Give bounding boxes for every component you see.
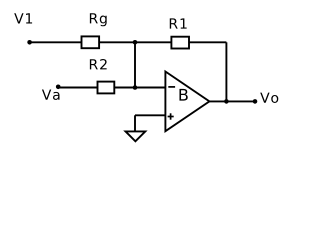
wire node B to op-amp inverting input — [135, 87, 165, 89]
label R2 — [90, 59, 107, 69]
resistor Rg — [82, 36, 100, 48]
wire feedback vertical — [225, 42, 227, 101]
label Rg — [90, 13, 107, 26]
resistor R2 — [98, 82, 115, 94]
label Vo — [260, 93, 278, 103]
wire op-amp noninverting input — [135, 114, 165, 116]
op-amp U1 triangle — [165, 72, 209, 132]
wire Rg to node A — [99, 41, 136, 43]
node output junction — [224, 99, 229, 104]
wire op-amp output to Vo — [209, 100, 255, 102]
node V1 terminal — [27, 40, 32, 45]
op-amp minus pin label — [168, 86, 175, 88]
wire R1 to top-right corner — [189, 41, 227, 43]
label V1 — [14, 13, 32, 23]
op-amp plus pin label — [168, 116, 174, 118]
wire Va to R2 — [58, 87, 97, 89]
label Va — [42, 89, 60, 99]
wire R2 to node B — [114, 87, 135, 89]
wire node A to node B vertical — [134, 42, 136, 87]
node Va terminal — [56, 85, 61, 90]
resistor R1 — [171, 37, 189, 49]
node A junction — [133, 40, 138, 45]
wire V1 to Rg — [30, 41, 82, 43]
wire node A to R1 — [135, 41, 172, 43]
node Vo terminal — [253, 99, 258, 104]
label R1 — [170, 18, 187, 28]
op-amp name B — [179, 89, 187, 101]
ground — [126, 131, 146, 141]
node B junction — [133, 85, 138, 90]
wire noninverting to ground — [134, 115, 136, 131]
